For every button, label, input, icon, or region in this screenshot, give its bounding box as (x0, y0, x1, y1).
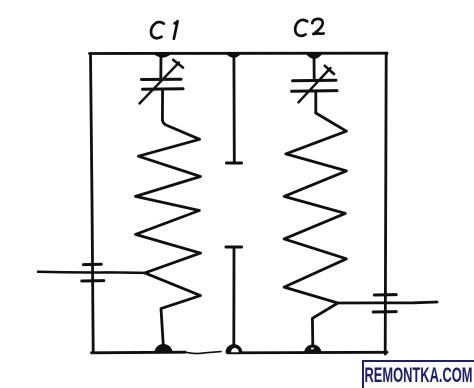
capacitor C2 top plate (293, 79, 336, 83)
wire C2 top lead (313, 54, 316, 80)
wire middle lower (232, 248, 235, 348)
node middle top junction (227, 54, 241, 58)
label C1 (151, 21, 178, 39)
watermark box REMONTKA.COM (363, 361, 474, 388)
capacitor C3 top plate (227, 162, 242, 165)
wire right tap (338, 302, 437, 303)
wire C2 bottom lead (314, 91, 317, 113)
node C1 top junction (154, 54, 171, 57)
capacitor C3 bottom plate (226, 246, 242, 249)
capacitor C4 left top plate (84, 263, 102, 266)
node C2 top junction (307, 54, 322, 59)
capacitor C2 arrowhead (325, 66, 334, 74)
wire middle upper (232, 54, 235, 162)
wire bottom right part (228, 351, 388, 354)
wire bottom (92, 351, 186, 354)
inductor L1 (left coil) (136, 120, 201, 344)
capacitor C5 right top plate (374, 293, 396, 296)
capacitor C4 left bottom plate (82, 279, 104, 282)
wire left (91, 54, 94, 353)
wire left tap (38, 272, 145, 273)
capacitor C1 top plate (142, 78, 182, 81)
capacitor C1 arrowhead (173, 60, 183, 68)
wire C1 top lead (159, 54, 162, 79)
svg-text:REMONTKA.COM: REMONTKA.COM (365, 363, 473, 387)
wire C1 bottom lead (161, 89, 164, 120)
inductor L2 (right coil) (284, 113, 346, 346)
node middle bottom arch (226, 345, 241, 353)
capacitor C2 arrow (298, 68, 330, 102)
node bottom-left junction dot (155, 345, 171, 353)
label C2 (295, 19, 323, 36)
wire top (90, 52, 388, 55)
capacitor C1 arrow (140, 63, 180, 104)
node bottom-right junction dot (305, 345, 321, 352)
capacitor C2 bottom plate (292, 89, 337, 93)
capacitor C1 bottom plate (143, 87, 184, 90)
wire bottom thin middle (185, 352, 221, 354)
wire right (385, 53, 386, 354)
capacitor C5 right bottom plate (373, 310, 396, 313)
